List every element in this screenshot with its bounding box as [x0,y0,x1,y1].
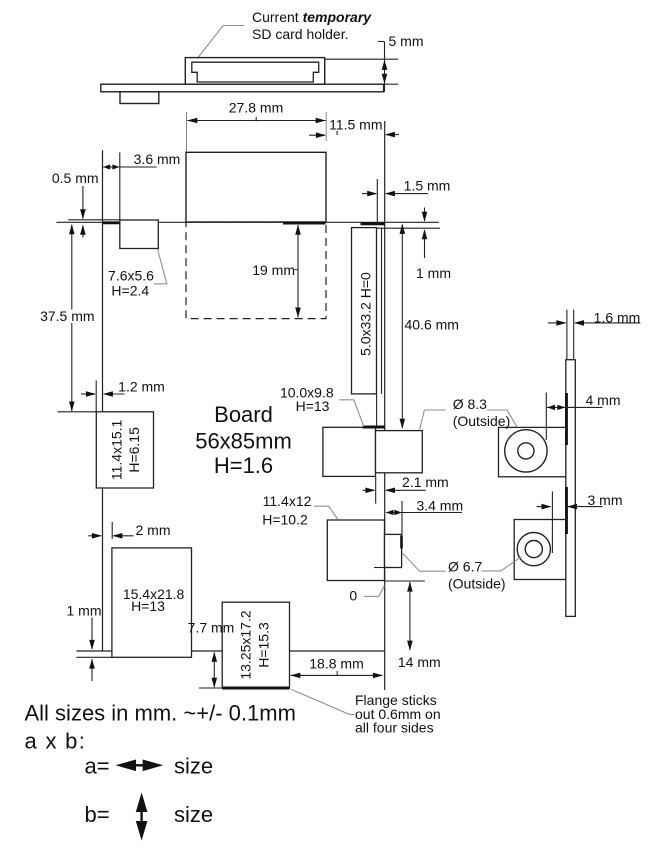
component top extension line (0.5mm) [68,219,120,221]
label 0 [349,586,384,604]
component 10.0x9.8 (left box) [323,427,376,476]
dimension 1.6 mm [548,310,640,326]
dimension 7.7 mm [188,620,235,688]
dashed SD holder footprint (19mm region) [186,222,326,319]
component bottom extension (1mm) [76,656,112,658]
dimension 3 mm [537,491,623,553]
svg-text:56x85mm: 56x85mm [195,429,292,454]
dimension 0.5 mm [52,170,99,238]
upper connector square [499,427,566,476]
svg-text:1.2 mm: 1.2 mm [118,379,165,395]
leader to SD card holder [198,26,244,58]
SD card holder outer (side view) [185,58,324,85]
extension for 14mm at component bottom [385,580,425,582]
lower connector outer circle [517,533,550,566]
svg-text:H=1.6: H=1.6 [214,453,273,478]
line parallel right of 5.0 box [381,228,383,394]
leader 7.6x5.6 [154,249,167,284]
board label [195,402,292,478]
svg-text:5 mm: 5 mm [389,33,424,49]
svg-text:5.0x33.2 H=0: 5.0x33.2 H=0 [358,272,374,356]
board bottom edge [76,650,384,652]
board strip (side view) [566,360,576,617]
svg-text:b=: b= [85,802,110,827]
svg-text:(Outside): (Outside) [453,413,511,429]
bold edge segment under SD holder [283,222,326,225]
svg-text:2 mm: 2 mm [136,522,171,538]
svg-text:Current temporary: Current temporary [252,9,372,25]
board left edge [102,150,104,412]
dimension 3.4 mm [386,497,463,534]
component 5.0x33.2 [352,228,377,394]
board top edge (top view) [57,221,440,223]
bold segment on barrel right edge [400,536,403,549]
bold segment on 10.0x9.8 top [363,426,385,429]
svg-text:3.4 mm: 3.4 mm [416,497,463,513]
svg-text:37.5 mm: 37.5 mm [40,308,94,324]
dimension 1.2 mm [81,379,165,414]
component 11.4x15.1 [96,412,153,488]
svg-text:Board: Board [214,402,273,427]
board right edge [384,121,386,690]
label Ø 6.7 (Outside) [402,553,521,592]
svg-text:H=2.4: H=2.4 [111,283,149,299]
component 11.4x12 (left box) [327,520,384,581]
component 15.4x21.8 [112,548,192,657]
lower connector inner circle [525,541,542,558]
svg-text:H=15.3: H=15.3 [256,622,272,668]
bold flange bottom edge [222,687,289,690]
dimension 2.1 mm [363,474,449,504]
svg-text:All sizes in mm. ~+/- 0.1mm: All sizes in mm. ~+/- 0.1mm [25,701,296,726]
svg-text:a=: a= [85,754,110,779]
b vertical double arrow [140,806,142,827]
lower connector square [514,520,566,580]
dimension 27.8 mm [187,100,327,153]
svg-text:40.6 mm: 40.6 mm [405,317,459,333]
SD card holder inner profile [192,62,319,82]
svg-text:27.8 mm: 27.8 mm [229,100,283,116]
svg-text:Ø 6.7: Ø 6.7 [448,559,482,575]
svg-text:1.5 mm: 1.5 mm [404,177,451,193]
dimension 14 mm [398,582,441,670]
dimension 19 mm [252,225,301,318]
svg-text:(Outside): (Outside) [448,575,506,591]
svg-text:3.6 mm: 3.6 mm [134,151,181,167]
label: Current temporary SD card holder. [252,9,372,42]
component 10.0x9.8 (right barrel) [376,431,423,473]
extension below 5.0 box [376,394,378,426]
label Ø 8.3 (Outside) [420,396,517,430]
bold edge segment (SD slot, board top-left) [102,221,120,224]
a horizontal double arrow [132,764,147,766]
svg-text:H=6.15: H=6.15 [126,427,142,473]
svg-text:11.5 mm: 11.5 mm [329,117,382,133]
board strip extension lines [566,310,568,360]
component 11.4x12 (right barrel) [385,534,402,567]
svg-text:18.8 mm: 18.8 mm [309,656,363,672]
svg-text:11.4x15.1: 11.4x15.1 [108,419,124,480]
component 7.6x5.6 [120,220,159,249]
svg-text:size: size [174,802,213,827]
svg-text:11.4x12: 11.4x12 [263,493,312,509]
dimension 1.5 mm [362,177,450,196]
dimension 2 mm [88,522,170,539]
dimension 11.5 mm [309,117,399,139]
svg-text:1 mm: 1 mm [416,265,451,281]
dimension 40.6 mm [400,224,459,429]
dimension 4 mm [546,392,620,440]
svg-text:14 mm: 14 mm [398,654,441,670]
upper connector outer circle [505,430,547,472]
bold edge segment board top-right [361,222,386,225]
svg-text:4 mm: 4 mm [586,392,621,408]
dimension 18.8 mm [290,656,383,679]
dimension 37.5 mm [40,224,94,411]
board (side view) [101,84,384,92]
dimension 1 mm (left) [67,603,102,682]
extension line at 11.4x15.1 top [58,411,97,413]
extension line at y=228 right of board [377,227,441,229]
SD holder footprint (top view) [186,152,326,222]
svg-text:H=10.2: H=10.2 [262,512,308,528]
SD card tab below board [120,92,159,104]
svg-text:13.25x17.2: 13.25x17.2 [238,610,254,679]
svg-text:SD card holder.: SD card holder. [252,26,349,42]
upper connector inner circle [518,443,534,459]
bold segment lower on strip [565,487,568,534]
dimension 1 mm (right) [416,208,451,282]
svg-text:19 mm: 19 mm [252,262,295,278]
svg-text:H=13: H=13 [296,398,330,414]
svg-text:2.1 mm: 2.1 mm [402,474,449,490]
component 13.25x17.2 [222,602,289,688]
svg-text:size: size [174,754,213,779]
dimension 3.6 mm [103,151,180,220]
flange note [292,690,441,736]
svg-text:3 mm: 3 mm [588,492,623,508]
dimension 5 mm [325,33,424,92]
svg-text:0.5 mm: 0.5 mm [52,170,99,186]
svg-text:all four sides: all four sides [355,720,434,736]
1.5mm left line [376,179,378,224]
svg-text:a x b:: a x b: [25,729,87,754]
svg-text:1 mm: 1 mm [67,603,102,619]
svg-text:H=13: H=13 [131,598,165,614]
svg-text:Ø 8.3: Ø 8.3 [453,396,487,412]
svg-text:0: 0 [349,588,357,604]
svg-text:7.7 mm: 7.7 mm [188,620,235,636]
svg-text:7.6x5.6: 7.6x5.6 [108,267,154,283]
bold segment upper on strip [565,393,568,445]
